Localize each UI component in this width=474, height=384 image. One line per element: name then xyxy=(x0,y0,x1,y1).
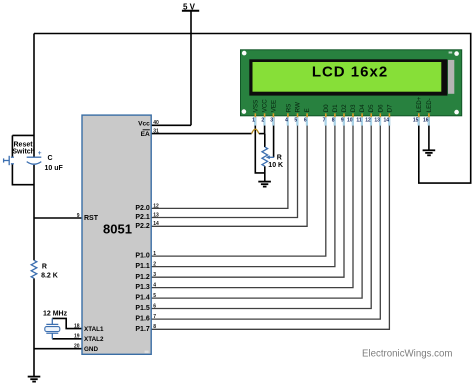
svg-text:XTAL2: XTAL2 xyxy=(84,336,104,343)
svg-text:12 MHz: 12 MHz xyxy=(43,311,68,318)
svg-text:13: 13 xyxy=(153,212,159,218)
svg-text:P1.4: P1.4 xyxy=(135,295,150,302)
svg-text:1: 1 xyxy=(252,117,255,123)
svg-text:Reset: Reset xyxy=(14,141,34,148)
svg-text:5 V: 5 V xyxy=(183,2,196,11)
svg-text:1: 1 xyxy=(153,251,156,257)
svg-text:P2.2: P2.2 xyxy=(135,223,150,230)
svg-text:12: 12 xyxy=(365,117,371,123)
svg-text:19: 19 xyxy=(74,333,80,339)
svg-text:2: 2 xyxy=(261,117,264,123)
svg-text:P2.0: P2.0 xyxy=(135,205,150,212)
svg-text:R: R xyxy=(277,154,282,161)
svg-text:+: + xyxy=(38,150,42,157)
svg-text:16: 16 xyxy=(423,117,429,123)
svg-text:10 uF: 10 uF xyxy=(45,165,64,172)
svg-text:VSS: VSS xyxy=(252,100,259,112)
svg-text:D4: D4 xyxy=(359,104,366,112)
svg-text:8051: 8051 xyxy=(103,222,132,237)
svg-text:9: 9 xyxy=(77,213,80,219)
svg-text:VEE: VEE xyxy=(270,100,277,112)
svg-text:12: 12 xyxy=(153,203,159,209)
svg-text:C: C xyxy=(48,155,53,162)
svg-text:8: 8 xyxy=(332,117,335,123)
svg-text:20: 20 xyxy=(74,344,80,350)
svg-text:RS: RS xyxy=(285,104,292,113)
svg-text:ElectronicWings.com: ElectronicWings.com xyxy=(362,348,452,359)
svg-text:7: 7 xyxy=(323,117,326,123)
svg-text:10: 10 xyxy=(347,117,353,123)
svg-text:LED+: LED+ xyxy=(416,96,423,112)
svg-text:3: 3 xyxy=(270,117,273,123)
svg-text:3: 3 xyxy=(153,272,156,278)
svg-text:15: 15 xyxy=(413,117,419,123)
svg-text:10 K: 10 K xyxy=(268,162,283,169)
svg-text:P2.1: P2.1 xyxy=(135,214,150,221)
svg-text:Vcc: Vcc xyxy=(138,120,150,127)
svg-text:LCD 16x2: LCD 16x2 xyxy=(312,64,388,81)
svg-text:EA: EA xyxy=(141,131,150,138)
svg-text:D1: D1 xyxy=(332,104,339,112)
svg-text:14: 14 xyxy=(383,117,389,123)
svg-text:13: 13 xyxy=(374,117,380,123)
svg-text:P1.0: P1.0 xyxy=(135,253,150,260)
svg-text:D0: D0 xyxy=(323,104,330,112)
svg-text:7: 7 xyxy=(153,314,156,320)
svg-text:GND: GND xyxy=(84,346,98,353)
svg-text:RST: RST xyxy=(84,215,99,222)
svg-text:VCC: VCC xyxy=(262,99,269,113)
svg-text:D2: D2 xyxy=(341,104,348,112)
svg-text:D6: D6 xyxy=(377,104,384,112)
svg-text:5: 5 xyxy=(294,117,297,123)
svg-text:E: E xyxy=(304,108,311,112)
svg-text:18: 18 xyxy=(74,324,80,330)
svg-text:P1.1: P1.1 xyxy=(135,263,150,270)
svg-text:R: R xyxy=(42,264,47,271)
svg-text:5: 5 xyxy=(153,293,156,299)
svg-text:8.2 K: 8.2 K xyxy=(41,272,58,279)
svg-text:4: 4 xyxy=(285,117,288,123)
svg-text:Switch: Switch xyxy=(12,148,35,155)
svg-text:2: 2 xyxy=(153,262,156,268)
svg-text:P1.7: P1.7 xyxy=(135,326,150,333)
svg-text:RW: RW xyxy=(295,102,302,112)
svg-text:D5: D5 xyxy=(368,104,375,112)
svg-text:P1.3: P1.3 xyxy=(135,284,150,291)
svg-text:6: 6 xyxy=(304,117,307,123)
svg-text:31: 31 xyxy=(153,129,159,135)
svg-text:14: 14 xyxy=(153,221,159,227)
svg-text:4: 4 xyxy=(153,283,156,289)
svg-text:11: 11 xyxy=(356,117,362,123)
svg-text:6: 6 xyxy=(153,303,156,309)
svg-text:P1.6: P1.6 xyxy=(135,316,150,323)
svg-text:P1.2: P1.2 xyxy=(135,274,150,281)
svg-text:D7: D7 xyxy=(386,104,393,112)
svg-text:P1.5: P1.5 xyxy=(135,305,150,312)
svg-text:8: 8 xyxy=(153,324,156,330)
svg-text:LED-: LED- xyxy=(426,98,433,112)
svg-text:9: 9 xyxy=(341,117,344,123)
svg-text:XTAL1: XTAL1 xyxy=(84,326,104,333)
svg-text:D3: D3 xyxy=(350,104,357,112)
svg-text:40: 40 xyxy=(153,120,159,126)
